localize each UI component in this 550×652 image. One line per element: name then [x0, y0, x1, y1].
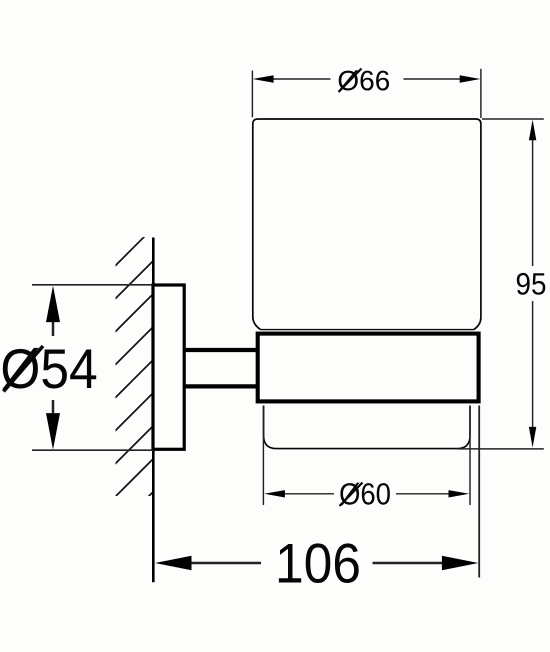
- dim Ø66: line right segment: [404, 78, 462, 80]
- dim Ø60: right extension line: [469, 406, 471, 505]
- dim 106: right extension line: [478, 406, 480, 578]
- arm top line: [185, 348, 259, 352]
- wall line: [152, 238, 155, 583]
- wall hatching: [110, 228, 153, 535]
- dim Ø66: right arrow: [460, 75, 481, 82]
- dim 95: top arrow: [529, 120, 536, 141]
- dim 95: line lower segment: [532, 301, 534, 429]
- dim Ø54: bottom arrow: [46, 413, 60, 450]
- dim Ø54: line upper segment: [52, 320, 55, 336]
- dim 95: label: [517, 273, 546, 295]
- dim Ø54: bottom extension line: [32, 449, 153, 451]
- dim Ø60: left extension line: [262, 406, 264, 505]
- dim Ø60: line right segment: [396, 493, 450, 495]
- dim Ø54: slash overshoot: [4, 346, 44, 392]
- dim 95: bottom extension line: [458, 448, 544, 450]
- dim 95: bottom arrow: [529, 427, 536, 448]
- dim Ø54: label: [2, 348, 96, 390]
- dim 106: line right segment: [373, 562, 446, 565]
- dim Ø54: top extension line: [32, 284, 153, 286]
- glass taper line: [261, 329, 474, 331]
- dim Ø60: left arrow: [264, 490, 285, 497]
- dim 106: left arrow: [155, 556, 192, 571]
- dim 95: line upper segment: [532, 138, 534, 266]
- dim 106: right arrow: [442, 556, 479, 571]
- glass upper body: [253, 119, 481, 330]
- dim Ø66: label: [338, 70, 389, 91]
- dim 106: label: [279, 543, 359, 583]
- dim Ø60: line left segment: [284, 493, 335, 495]
- dim Ø66: slash overshoot: [339, 69, 362, 93]
- dim Ø66: line left segment: [272, 78, 331, 80]
- dim Ø66: right extension line: [480, 69, 482, 118]
- arm bottom line: [185, 384, 259, 388]
- dim Ø66: left arrow: [253, 75, 274, 82]
- holder ring: [258, 334, 479, 402]
- dim Ø66: left extension line: [251, 71, 253, 118]
- dim Ø60: slash overshoot: [340, 483, 363, 507]
- glass lower body: [264, 406, 470, 449]
- dim 106: line left segment: [189, 562, 261, 565]
- dim Ø54: line lower segment: [52, 400, 55, 415]
- dim 95: top extension line: [482, 118, 544, 120]
- dim Ø60: label: [340, 483, 390, 506]
- backplate (escutcheon): [153, 285, 184, 449]
- dim Ø60: right arrow: [449, 490, 470, 497]
- dim Ø54: top arrow: [46, 286, 60, 323]
